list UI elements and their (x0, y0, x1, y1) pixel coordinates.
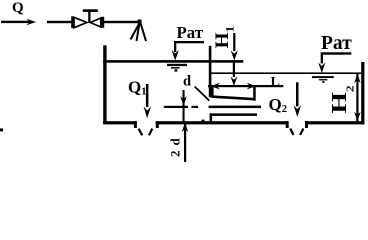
svg-text:Рат: Рат (321, 33, 352, 54)
svg-text:Рат: Рат (177, 23, 204, 42)
svg-text:2d: 2d (168, 133, 183, 157)
svg-text:Q: Q (12, 0, 24, 16)
svg-text:L: L (271, 75, 280, 90)
svg-text:d: d (183, 74, 191, 90)
